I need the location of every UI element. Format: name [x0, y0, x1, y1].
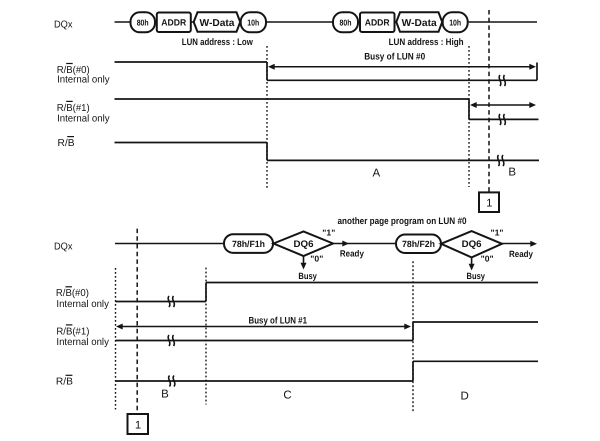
svg-text:W-Data: W-Data: [402, 18, 437, 29]
svg-text:80h: 80h: [137, 18, 149, 28]
status cycle 78h/F1h: [224, 234, 273, 253]
dotted marker line (R/B(#0) ready): [205, 268, 207, 405]
wire R/B(#0) top: falling edge: [266, 62, 268, 80]
bus cycle 80h (first): [131, 12, 156, 32]
svg-text:"0": "0": [310, 253, 323, 263]
wire R/B(#0) bottom: low level: [116, 301, 207, 303]
dotted marker line (first program end): [266, 46, 268, 190]
svg-text:W-Data: W-Data: [200, 18, 235, 29]
wire bottom DQx bus line: [115, 243, 533, 245]
svg-text:78h/F1h: 78h/F1h: [232, 239, 265, 249]
svg-text:C: C: [283, 390, 291, 402]
bus cycle 10h (first): [241, 12, 266, 32]
svg-text:another page program on LUN #0: another page program on LUN #0: [338, 216, 467, 227]
decision diamond DQ6 (second): [441, 231, 502, 257]
dotted marker line (second program end): [468, 46, 470, 187]
svg-text:"0": "0": [481, 254, 494, 264]
break mark on R/B(#0) bottom low line: [168, 296, 170, 307]
wire R/B(#1) top: low (busy) level: [469, 118, 539, 120]
wire R/B(#0) bottom: high level: [206, 282, 538, 284]
break mark on R/B(#0) low line: [499, 75, 501, 86]
bus cycle W-Data (first): [194, 12, 241, 32]
svg-text:1: 1: [486, 198, 492, 210]
break mark on R/B low line: [498, 155, 500, 166]
wire R/B(#1) bottom: high level: [413, 321, 538, 323]
wire R/B bottom: high level: [413, 360, 538, 362]
svg-text:R/B(#1): R/B(#1): [57, 103, 90, 114]
break mark on R/B bottom low line: [169, 376, 171, 387]
wire R/B(#1) top: falling edge: [468, 99, 470, 119]
footnote box 1 (bottom): [128, 414, 149, 434]
svg-text:10h: 10h: [247, 18, 259, 28]
svg-text:Ready: Ready: [340, 249, 364, 259]
dashed marker line to footnote 1 (bottom): [136, 229, 138, 414]
wire R/B top: falling edge: [266, 143, 268, 161]
svg-text:DQx: DQx: [54, 20, 73, 31]
arrow mid-line Ready (first): [342, 241, 349, 247]
svg-text:R/B(#1): R/B(#1): [56, 326, 89, 337]
svg-text:DQ6: DQ6: [462, 239, 482, 250]
footnote box 1 (top): [479, 192, 499, 212]
wire busy branch down (first): [303, 256, 305, 265]
decision diamond DQ6 (first): [274, 232, 334, 257]
svg-text:R/B: R/B: [58, 138, 75, 149]
wire busy branch down (second): [471, 257, 473, 266]
svg-text:Internal only: Internal only: [56, 337, 109, 348]
wire R/B bottom: rising edge: [412, 361, 414, 381]
wire R/B(#0) top: low (busy) level: [267, 79, 537, 81]
dashed marker line to footnote 1: [488, 10, 490, 192]
svg-text:Busy: Busy: [467, 271, 486, 281]
bus cycle 80h (second): [333, 12, 358, 32]
svg-text:R/B(#0): R/B(#0): [56, 288, 89, 299]
wire R/B(#0) bottom: rising edge: [205, 283, 207, 302]
svg-text:A: A: [372, 167, 380, 179]
svg-text:"1": "1": [491, 228, 504, 238]
break mark on R/B(#1) low line: [499, 114, 501, 125]
wire R/B top: low level: [267, 159, 539, 161]
svg-text:Busy of LUN #1: Busy of LUN #1: [249, 315, 308, 326]
svg-text:B: B: [508, 167, 516, 179]
wire busy-of-LUN#1 measurement arrow (bottom): [118, 326, 408, 328]
status cycle 78h/F2h: [396, 235, 441, 254]
wire R/B(#1) top: high level: [115, 98, 470, 100]
svg-text:LUN address : High: LUN address : High: [389, 37, 464, 48]
svg-text:Busy: Busy: [298, 271, 317, 281]
svg-text:Busy of LUN #0: Busy of LUN #0: [364, 52, 425, 63]
svg-text:Internal only: Internal only: [57, 113, 110, 124]
wire R/B(#0) top: rising edge: [536, 63, 538, 81]
dotted marker line (LUN#1 ready): [412, 261, 414, 411]
svg-text:Internal only: Internal only: [56, 299, 109, 310]
bus cycle 10h (second): [443, 12, 468, 32]
wire R/B bottom: low level: [116, 380, 414, 382]
svg-text:10h: 10h: [449, 18, 461, 28]
svg-text:Ready: Ready: [509, 249, 533, 259]
wire R/B(#0) top: high level: [115, 61, 268, 63]
wire R/B(#1) bottom: rising edge: [412, 322, 414, 341]
wire busy-of-LUN#1 start arrow (top): [472, 104, 533, 106]
bus cycle W-Data (second): [396, 12, 442, 32]
svg-text:ADDR: ADDR: [161, 18, 186, 28]
svg-text:D: D: [460, 390, 468, 402]
svg-text:"1": "1": [322, 227, 335, 237]
bus cycle ADDR (first): [157, 13, 191, 33]
arrow end Ready (second): [530, 241, 537, 247]
svg-text:R/B: R/B: [56, 377, 73, 388]
wire R/B(#1) bottom: low level: [116, 340, 414, 342]
svg-text:80h: 80h: [340, 18, 352, 28]
svg-text:B: B: [161, 388, 169, 400]
svg-text:LUN address : Low: LUN address : Low: [182, 37, 253, 48]
wire busy-of-LUN#0 measurement arrow: [270, 66, 533, 68]
wire R/B top: high level: [115, 142, 268, 144]
wire top DQx bus line: [115, 21, 538, 23]
bus cycle ADDR (second): [360, 13, 395, 33]
svg-text:1: 1: [135, 420, 141, 432]
svg-text:Internal only: Internal only: [57, 75, 110, 86]
dotted marker line (bottom left): [115, 268, 117, 410]
svg-text:ADDR: ADDR: [365, 18, 390, 28]
svg-text:DQ6: DQ6: [294, 239, 314, 250]
svg-text:78h/F2h: 78h/F2h: [402, 239, 435, 249]
break mark on R/B(#1) bottom low line: [168, 335, 170, 346]
svg-text:DQx: DQx: [54, 242, 73, 253]
